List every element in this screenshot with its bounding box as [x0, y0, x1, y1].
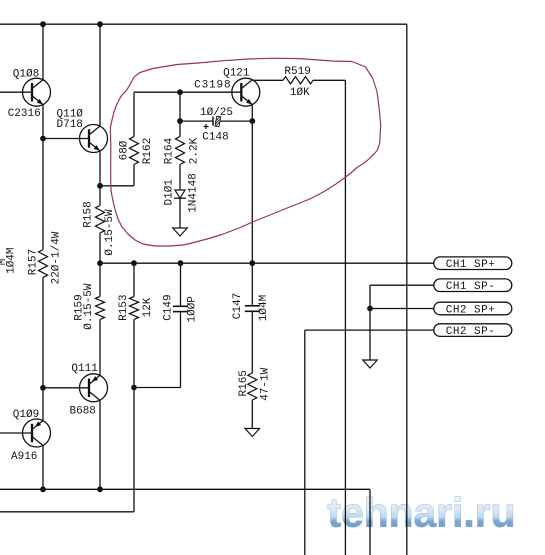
wire CH2 SP- vertical	[304, 330, 306, 555]
wire R162 bottom corner	[133, 165, 135, 186]
capacitor C149	[173, 305, 188, 307]
svg-text:tehnari.ru: tehnari.ru	[328, 490, 516, 536]
connector port CH1 SP+	[434, 257, 512, 270]
svg-text:1Ø/25: 1Ø/25	[200, 107, 233, 119]
node junction R153 bottom	[131, 385, 137, 391]
svg-text:R519: R519	[284, 66, 310, 78]
svg-text:R158: R158	[82, 201, 94, 227]
svg-text:CH2 SP+: CH2 SP+	[446, 304, 495, 316]
svg-text:A916: A916	[11, 451, 37, 463]
transistor Q110	[80, 125, 108, 153]
svg-text:1ØK: 1ØK	[290, 87, 310, 99]
svg-text:D1Ø1: D1Ø1	[163, 179, 175, 206]
wire junction to Q109 emitter	[42, 388, 44, 421]
resistor R159	[96, 297, 105, 320]
capacitor C148 polarized plate	[215, 116, 221, 127]
resistor R153	[130, 297, 139, 320]
node junction C148 left	[177, 118, 183, 124]
transistor Q121	[232, 78, 260, 106]
node junction bus / column B	[97, 260, 103, 266]
wire Q108 base	[0, 91, 32, 93]
wire bus to R153	[133, 263, 135, 296]
svg-text:Q121: Q121	[223, 68, 250, 80]
svg-text:47-1W: 47-1W	[259, 367, 271, 400]
svg-text:68Ø: 68Ø	[118, 140, 130, 160]
svg-text:1Ø4M: 1Ø4M	[258, 295, 270, 321]
node junction bottom rail / column B	[97, 486, 103, 492]
svg-text:2.2K: 2.2K	[188, 137, 200, 164]
resistor R157	[39, 250, 48, 278]
svg-text:R164: R164	[163, 137, 175, 164]
wire R519 to right column	[313, 79, 345, 81]
wire junction to R158	[99, 186, 101, 206]
svg-text:CH2 SP-: CH2 SP-	[446, 326, 495, 338]
svg-text:C148: C148	[202, 131, 228, 143]
svg-text:CH1 SP-: CH1 SP-	[446, 281, 495, 293]
wire lower rail horizontal	[0, 511, 134, 513]
wire C149 down	[180, 312, 182, 388]
svg-text:R153: R153	[118, 294, 130, 320]
node junction Q111 base	[40, 385, 46, 391]
wire Q121 collector to R519	[253, 79, 283, 81]
wire right vertical from top rail	[406, 24, 408, 555]
svg-text:12K: 12K	[142, 297, 154, 317]
wire top horizontal rail	[0, 23, 407, 25]
resistor R164	[176, 137, 185, 165]
wire R162 bottom to column B	[100, 185, 134, 187]
svg-text:Q111: Q111	[71, 363, 98, 375]
wire bus to C147	[251, 263, 253, 306]
svg-text:R165: R165	[238, 370, 250, 396]
node junction bus / C149 column	[178, 260, 184, 266]
wire Q111 collector to bottom rail	[99, 400, 101, 489]
resistor R519	[283, 77, 313, 84]
wire R162 column top corner	[133, 92, 135, 136]
svg-text:1ØØP: 1ØØP	[187, 296, 199, 323]
wire C148 junction to bus	[251, 121, 253, 263]
node junction bottom rail / left column	[40, 486, 46, 492]
wire Q110 emitter down to junction	[99, 151, 101, 186]
node junction R162 bottom wire	[97, 183, 103, 189]
svg-text:Ø.15-5W: Ø.15-5W	[83, 283, 95, 330]
wire ground column vertical	[369, 285, 371, 360]
connector port CH2 SP+	[434, 302, 512, 315]
diode D101	[175, 190, 185, 198]
wire lower rail vertical to R153 junction	[133, 388, 135, 512]
watermark tehnari.ru	[326, 487, 515, 535]
wire Q111 base	[43, 387, 89, 389]
node junction CH2 SP+ / ground column	[367, 306, 373, 312]
wire bus to R159	[99, 263, 101, 296]
svg-text:CH1 SP+: CH1 SP+	[446, 259, 495, 271]
wire R164 column from base line	[179, 92, 181, 136]
wire CH1 SP- to ground column	[370, 284, 434, 286]
resistor R162	[130, 137, 139, 165]
wire left column above Q108	[42, 24, 44, 80]
wire Q109 base	[0, 432, 32, 434]
wire bus horizontal to CH1 SP+	[100, 262, 434, 264]
svg-text:D718: D718	[57, 119, 83, 131]
wire R519 right column vertical	[344, 80, 346, 555]
transistor Q111	[80, 374, 108, 402]
wire R165 to ground	[251, 400, 253, 429]
svg-text:C147: C147	[232, 293, 244, 319]
wire R159 to Q111	[99, 319, 101, 375]
wire CH2 SP- horizontal	[305, 329, 434, 331]
capacitor C148 left plate	[212, 117, 214, 126]
wire bottom rail horizontal	[0, 488, 370, 490]
node junction top rail / left column	[40, 21, 46, 27]
wire bottom rail right vertical	[369, 489, 371, 555]
node junction Q110 base	[40, 136, 46, 142]
node junction bus / column F	[249, 260, 255, 266]
node junction Q121 base / R164 column	[177, 89, 183, 95]
svg-text:Q1Ø8: Q1Ø8	[13, 69, 39, 81]
svg-text:Ø.15-5W: Ø.15-5W	[104, 209, 116, 256]
svg-text:C2316: C2316	[8, 108, 41, 120]
ground under D101	[173, 228, 187, 236]
wire D101 to ground	[179, 198, 181, 228]
wire left column to R157	[42, 139, 44, 250]
svg-text:R157: R157	[28, 249, 40, 275]
svg-text:1N4148: 1N4148	[188, 173, 200, 213]
wire Q121 emitter to C148 junction	[251, 105, 253, 122]
svg-text:C149: C149	[162, 294, 174, 320]
C148 plus sign	[204, 126, 209, 128]
capacitor C147	[245, 305, 260, 307]
wire C149 bottom to R153 junction	[134, 387, 181, 389]
node junction C148 right / Q121 emitter column	[249, 118, 255, 124]
wire Q110 base	[43, 138, 89, 140]
connector port CH2 SP-	[434, 324, 512, 337]
wire R153 to junction	[133, 319, 135, 387]
wire bus to C149	[180, 263, 182, 306]
resistor R158	[96, 206, 105, 234]
wire C148 right	[221, 120, 253, 122]
svg-text:C3198: C3198	[194, 80, 231, 92]
svg-text:R162: R162	[142, 138, 154, 164]
svg-text:Q1Ø9: Q1Ø9	[13, 409, 39, 421]
svg-text:B688: B688	[70, 405, 96, 417]
node junction bus / R153 column	[131, 260, 137, 266]
wire C148 left	[180, 120, 213, 122]
wire R158 to bus	[99, 233, 101, 263]
transistor Q108	[23, 78, 51, 106]
svg-text:22Ø-1/4W: 22Ø-1/4W	[51, 231, 63, 284]
connector port CH1 SP-	[434, 279, 512, 292]
red freehand annotation loop	[110, 58, 380, 246]
svg-text:M: M	[0, 259, 9, 266]
wire Q121 base from R162 column	[134, 91, 241, 93]
wire R157 to Q111 base junction	[42, 277, 44, 387]
wire left column Q108 emitter to junction	[42, 105, 44, 139]
wire C147 to R165	[251, 311, 253, 373]
resistor R165	[248, 373, 257, 400]
transistor Q109	[23, 419, 51, 447]
ground speaker return	[363, 360, 377, 368]
wire second column above Q110	[99, 24, 101, 126]
wire CH2 SP+ horizontal	[370, 308, 434, 310]
ground under R165	[245, 429, 259, 437]
wire Q109 collector to bottom rail	[42, 445, 44, 489]
wire R164 to D101	[179, 165, 181, 191]
node junction top rail / second column	[97, 21, 103, 27]
